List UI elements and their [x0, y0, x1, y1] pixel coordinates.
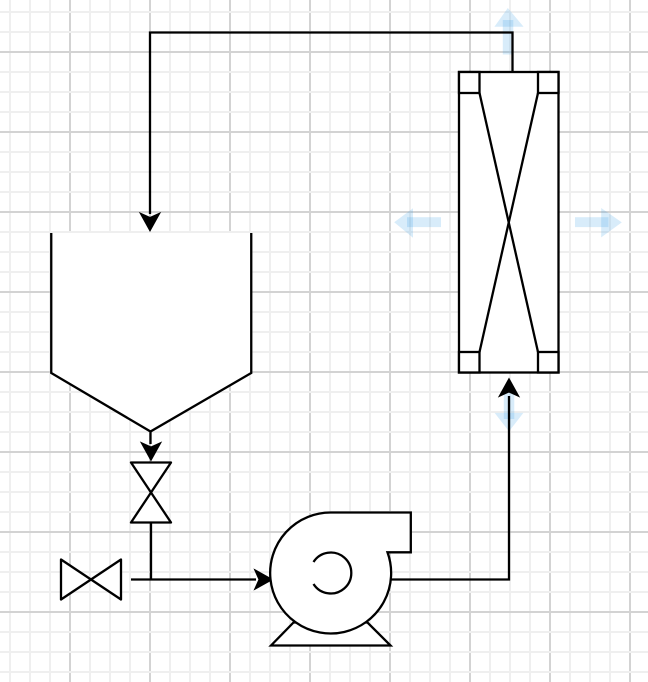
wire: suction line into pump: [131, 570, 273, 590]
pump P1 body (centrifugal pump): [270, 512, 411, 633]
column C1 cross diagonal 1: [480, 93, 539, 352]
column C1 (packed column) body: [459, 72, 559, 373]
pump P1 impeller arc: [314, 553, 352, 594]
column C1 corner box bottom-left: [459, 352, 480, 373]
column C1 cross diagonal 2: [480, 93, 539, 352]
wire: column top to tank (recycle line): [140, 33, 513, 232]
decorative grid (not labelled individually): [9, 0, 11, 682]
tank T1 (open-top hopper): [51, 233, 251, 432]
direction arrow (blue, right) right of column: [575, 208, 622, 237]
wire: tank bottom to valve: [141, 432, 161, 461]
column C1 corner box top-right: [538, 72, 559, 93]
direction arrow (blue, left) left of column: [394, 208, 441, 238]
column C1 corner box bottom-right: [538, 352, 559, 373]
direction arrow (blue, down) below column: [495, 390, 524, 432]
direction arrow (blue, up) above column: [494, 8, 523, 55]
column C1 corner box top-left: [459, 72, 480, 93]
wire: valve V1 down to pump suction line: [150, 523, 152, 580]
valve V2 (gate valve, horizontal): [61, 560, 121, 600]
wire: pump discharge to column bottom: [392, 379, 520, 580]
pump P1 base: [271, 623, 391, 646]
valve V1 (gate valve, vertical): [131, 463, 171, 523]
